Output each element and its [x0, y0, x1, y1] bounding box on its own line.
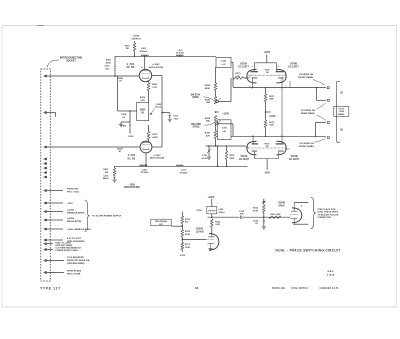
R322 C322 chain: [253, 199, 266, 230]
svg-text:SOCKET: SOCKET: [66, 60, 76, 62]
svg-text:6: 6: [278, 66, 279, 68]
svg-text:680K: 680K: [205, 88, 211, 90]
svg-text:8.2K: 8.2K: [216, 224, 221, 226]
resistor R326: [205, 97, 217, 105]
label -150V multivib: [128, 136, 134, 138]
label R302: [118, 78, 124, 83]
wire -150V pin: [47, 202, 74, 205]
page number 44: [195, 286, 199, 290]
svg-text:L303: L303: [142, 169, 148, 171]
wire pin3 to V306 grid: [47, 146, 140, 148]
bus rail D: [115, 165, 248, 167]
svg-text:C308: C308: [156, 104, 162, 106]
svg-text:(TRIG): (TRIG): [192, 97, 199, 99]
+100V node V324: [208, 197, 215, 207]
V370A plate: [250, 63, 258, 72]
svg-text:SUPPLY): SUPPLY): [131, 38, 141, 40]
label +150V decoupled bottom: [150, 155, 165, 160]
svg-text:56K: 56K: [206, 121, 210, 123]
svg-text:(TRIG): (TRIG): [193, 127, 200, 129]
wire heater pins: [47, 242, 82, 252]
svg-text:CONNECTOR: CONNECTOR: [318, 217, 332, 219]
wire to V372 grid: [206, 145, 246, 147]
svg-text:SW 370B: SW 370B: [191, 124, 201, 126]
svg-text:6C B6: 6C B6: [127, 157, 135, 160]
svg-text:R320 100K: R320 100K: [270, 214, 281, 216]
svg-text:R370: R370: [236, 73, 242, 75]
pin numbers V370: [249, 66, 286, 88]
label coax 30 lower: [339, 128, 342, 131]
svg-text:BOOTH HILL: BOOTH HILL: [272, 288, 287, 290]
+100V tap divider: [215, 111, 230, 115]
label V324B: [278, 201, 285, 207]
resistor R328: [205, 116, 217, 124]
grid chain from pin1: [117, 76, 119, 111]
switch wiper SW370A: [216, 98, 231, 103]
peaking coil L302: [140, 48, 149, 56]
label V370B: [288, 63, 299, 68]
mod note: [327, 271, 335, 276]
peaking coil L303: [140, 165, 149, 174]
page top edge: [2, 25, 397, 27]
svg-text:R371: R371: [269, 96, 275, 98]
svg-text:C315: C315: [202, 155, 208, 157]
divider column bottom: [215, 139, 217, 147]
svg-text:1/2 6U8: 1/2 6U8: [195, 232, 204, 234]
cross-coupling lead V370B cathode to V372B plate: [281, 78, 283, 143]
page left edge: [1, 26, 3, 308]
svg-text:68K: 68K: [206, 102, 210, 104]
svg-text:2.7K: 2.7K: [152, 87, 157, 89]
resistor R320: [269, 214, 281, 219]
wire plate pin: [47, 270, 82, 276]
label V324A: [195, 227, 204, 233]
svg-text:M.E.D: M.E.D: [328, 271, 334, 273]
svg-text:-150V: -150V: [128, 136, 134, 138]
V324B internals: [290, 202, 298, 224]
label V370A: [238, 62, 249, 68]
ground V324A: [209, 248, 213, 250]
svg-text:R302: R302: [118, 78, 124, 80]
svg-text:100K: 100K: [185, 247, 190, 249]
svg-text:-150V: -150V: [179, 255, 185, 257]
wire rail A to V304 plate: [144, 56, 146, 70]
resistor R312: [211, 219, 221, 234]
wire +350V pin: [47, 228, 91, 231]
node with C308 label: [150, 104, 161, 115]
wire trig box: [171, 221, 174, 223]
switch wiper SW370B: [216, 120, 233, 136]
svg-text:TYPE 127: TYPE 127: [40, 287, 61, 291]
svg-text:15K: 15K: [104, 172, 108, 174]
V372A grid feed: [245, 146, 248, 148]
svg-text:C317: C317: [173, 116, 179, 118]
tube V372A envelope: [247, 141, 257, 155]
footer right: [320, 287, 340, 290]
svg-text:DECOUPLED): DECOUPLED): [149, 67, 164, 69]
V372B plate: [276, 143, 284, 145]
V372 grid line: [248, 148, 289, 149]
peaking coil L313: [176, 165, 188, 174]
box C332: [216, 57, 231, 67]
grid network R301 C301: [104, 56, 116, 76]
brace plug-in: [311, 198, 316, 229]
label +150V decoupled top: [149, 64, 164, 69]
svg-text:-150V: -150V: [129, 184, 136, 186]
page bottom edge: [2, 306, 397, 308]
V370B cathode: [278, 77, 284, 79]
label R376 center: [265, 143, 271, 148]
label R305: [117, 149, 123, 154]
svg-text:10uf: 10uf: [174, 118, 179, 120]
resistor R315: [225, 145, 235, 167]
footer left: [272, 288, 287, 290]
svg-text:500uh: 500uh: [219, 212, 226, 214]
+100V stub V370: [263, 52, 270, 63]
terminal box: [334, 106, 349, 116]
resistor R372: [264, 112, 275, 136]
svg-text:+100V: +100V: [208, 197, 215, 199]
svg-text:R328: R328: [205, 118, 211, 120]
svg-text:(+100V: (+100V: [67, 210, 75, 212]
label coax 30 upper: [339, 91, 342, 94]
wire to contact 2: [316, 88, 325, 101]
resistor R324: [205, 83, 217, 91]
svg-text:220K: 220K: [185, 234, 190, 236]
svg-text:R326: R326: [205, 99, 211, 101]
wire to contact 3: [316, 122, 326, 136]
capacitor C305: [121, 114, 131, 133]
label V372B: [289, 156, 300, 161]
tube V372B envelope: [277, 141, 287, 155]
trimmer C315: [201, 145, 211, 160]
svg-text:R313: R313: [103, 169, 109, 171]
svg-text:R316: R316: [185, 219, 191, 221]
svg-text:INTERCONNECTING: INTERCONNECTING: [60, 57, 83, 59]
svg-text:FROM CRT: FROM CRT: [67, 189, 79, 191]
svg-text:C313: C313: [103, 175, 109, 177]
bus +150V rail A: [115, 55, 216, 57]
svg-text:680uf: 680uf: [103, 178, 109, 180]
V370 grid line: [244, 75, 286, 78]
svg-text:L302: L302: [141, 48, 147, 50]
label V304: [126, 63, 135, 69]
tube V370A envelope: [247, 69, 257, 83]
svg-text:R311: R311: [152, 134, 158, 136]
svg-text:DUAL - TRACE SWITCHING CIR: DUAL - TRACE SWITCHING CIRCUIT: [276, 248, 341, 252]
peaking coil L312: [176, 50, 185, 57]
wire +225V pin: [47, 218, 82, 223]
svg-text:+100V: +100V: [222, 114, 229, 116]
wire box1 down: [231, 62, 233, 87]
svg-text:44: 44: [195, 286, 199, 290]
wire grid V324A: [182, 239, 206, 241]
wire grid bus V324B: [208, 214, 291, 218]
contact 4: [325, 136, 330, 138]
svg-text:C318: C318: [239, 211, 245, 213]
label SW370B: [191, 123, 214, 129]
V324B plate out: [294, 202, 309, 208]
socket pins: [43, 75, 46, 273]
svg-text:-150V: -150V: [67, 203, 73, 205]
contact 1: [325, 87, 330, 89]
svg-text:TO SCOPE POWER SUPPLY: TO SCOPE POWER SUPPLY: [92, 216, 122, 218]
screen line V304-V306: [152, 76, 162, 148]
resistor R371: [264, 88, 275, 102]
resistor R330: [205, 123, 217, 139]
label R370 center: [265, 69, 271, 74]
wire cathode bus y87.6: [233, 81, 325, 89]
svg-text:PLUG: PLUG: [339, 108, 345, 110]
resistor R307: [147, 82, 158, 103]
label V372A: [239, 155, 250, 161]
label type 127: [40, 287, 61, 291]
svg-text:C332: C332: [221, 60, 227, 62]
+100V tap: [265, 102, 276, 118]
svg-text:PIN 5, V162B: PIN 5, V162B: [67, 274, 81, 276]
interconnecting socket J301 dashed outline: [41, 69, 51, 281]
label -150V decoupled: [124, 184, 140, 189]
box C336: [218, 120, 232, 140]
tube V304 envelope: [139, 69, 151, 81]
junction rail D: [217, 145, 219, 167]
heater supply stub: [125, 36, 141, 57]
wire pin1 to V304 grid: [47, 75, 139, 77]
V324B cathode out: [294, 224, 309, 225]
decoupling R313 C313: [103, 166, 117, 182]
svg-text:6.3V TO V370: 6.3V TO V370: [67, 238, 82, 240]
svg-text:(+150V: (+150V: [152, 64, 160, 66]
column R316 R318 R317: [179, 211, 190, 256]
svg-text:V372B: V372B: [290, 156, 297, 158]
wire 6.3V pin: [47, 238, 85, 243]
svg-text:1M: 1M: [266, 146, 269, 148]
pin2 chassis stub: [47, 113, 56, 118]
label interconnecting socket: [47, 57, 82, 67]
tube V324B envelope: [292, 208, 302, 223]
svg-text:56K: 56K: [270, 99, 274, 101]
svg-text:(DECOUPLED): (DECOUPLED): [124, 187, 140, 189]
box B304: [137, 102, 149, 120]
wire CRT pickoff: [47, 189, 80, 194]
wire R324-R326: [215, 91, 217, 97]
tube V304 internals: [141, 66, 151, 85]
label located front panel bottom: [299, 139, 325, 148]
svg-text:(+HTR: (+HTR: [133, 36, 140, 38]
label V306: [127, 154, 135, 160]
svg-text:(2PR WHT WIRE): (2PR WHT WIRE): [56, 245, 73, 247]
label located front panel top: [298, 73, 324, 85]
V372 cathode to -150V: [264, 159, 271, 175]
svg-text:PIN 7, V162: PIN 7, V162: [67, 191, 80, 193]
svg-text:R318: R318: [185, 231, 191, 233]
tube V306 envelope: [140, 141, 152, 153]
svg-text:R315: R315: [229, 155, 235, 157]
note stay slack: [318, 208, 339, 219]
svg-text:(2PR BRN WIRE): (2PR BRN WIRE): [67, 263, 85, 265]
V324A internals: [206, 234, 215, 248]
wire box left to C305: [118, 110, 137, 123]
V372 cathode bus: [254, 158, 278, 160]
svg-text:R305: R305: [117, 149, 123, 151]
svg-text:(+225V: (+225V: [67, 218, 75, 220]
tube V370 plate rail: [255, 62, 277, 64]
svg-text:C322: C322: [253, 220, 259, 222]
svg-text:V 306: V 306: [128, 154, 136, 157]
footer mid: [292, 287, 308, 290]
contact 2: [325, 99, 330, 101]
ground stub left: [119, 122, 130, 127]
svg-text:(+150V: (+150V: [153, 155, 161, 157]
svg-text:+100V: +100V: [263, 52, 270, 54]
wire +100V pin: [47, 210, 85, 215]
V370B plate: [276, 63, 284, 72]
wire wiper1 to grid resistor: [231, 73, 248, 101]
svg-text:DECOUPLED): DECOUPLED): [150, 158, 165, 160]
resistor R311: [147, 125, 158, 141]
label located rear panel: [301, 103, 326, 120]
trig signal out box: [151, 219, 183, 226]
svg-text:C305: C305: [121, 114, 127, 116]
wire V306 cathode to rail: [145, 153, 147, 166]
V372A cathode: [252, 151, 258, 159]
contact 3: [325, 121, 330, 123]
peaking coil L324 box: [197, 207, 226, 214]
wire CRT bulb pin: [47, 256, 90, 265]
svg-text:R372: R372: [269, 122, 275, 124]
svg-text:2.2K: 2.2K: [140, 100, 145, 102]
svg-text:R317: R317: [185, 244, 191, 246]
svg-text:V 304: V 304: [127, 63, 135, 66]
svg-text:-150V: -150V: [264, 172, 271, 174]
svg-text:L312: L312: [178, 50, 184, 52]
divider column top: [215, 67, 217, 83]
svg-text:C336: C336: [222, 128, 228, 130]
tube V324A envelope: [209, 234, 219, 250]
brace to power supply: [85, 200, 122, 232]
tube V306 internals: [142, 143, 150, 150]
svg-text:180K: 180K: [229, 158, 234, 160]
capacitor C318: [239, 211, 245, 219]
svg-text:6: 6: [301, 206, 302, 208]
svg-text:L313: L313: [181, 170, 187, 172]
title dual-trace switching circuit: [276, 248, 341, 252]
capacitor C317: [161, 112, 179, 122]
V372B cathode: [278, 151, 284, 159]
svg-text:R306: R306: [140, 97, 146, 99]
svg-text:C301: C301: [104, 66, 110, 68]
wire plate bus y136: [231, 136, 325, 138]
page right edge: [396, 26, 398, 308]
svg-text:R301: R301: [106, 60, 112, 62]
label SW370A: [191, 93, 214, 100]
svg-text:R307: R307: [152, 84, 158, 86]
svg-text:ELEV TO +350V: ELEV TO +350V: [56, 242, 72, 244]
V370A cathode: [252, 78, 258, 88]
svg-text:1: 1: [252, 66, 253, 68]
svg-text:R312: R312: [215, 221, 221, 223]
svg-text:+100V: +100V: [269, 116, 276, 118]
svg-text:R322: R322: [253, 208, 259, 210]
V372A plate: [252, 136, 258, 144]
svg-text:R330: R330: [205, 133, 211, 135]
label R306: [140, 97, 146, 102]
svg-text:6C B6: 6C B6: [126, 66, 135, 69]
svg-text:1M: 1M: [266, 72, 269, 74]
svg-text:V370B: V370B: [290, 63, 297, 65]
tube V370B envelope: [277, 69, 287, 83]
connector bracket J370: [337, 82, 341, 143]
svg-text:56K: 56K: [270, 125, 274, 127]
